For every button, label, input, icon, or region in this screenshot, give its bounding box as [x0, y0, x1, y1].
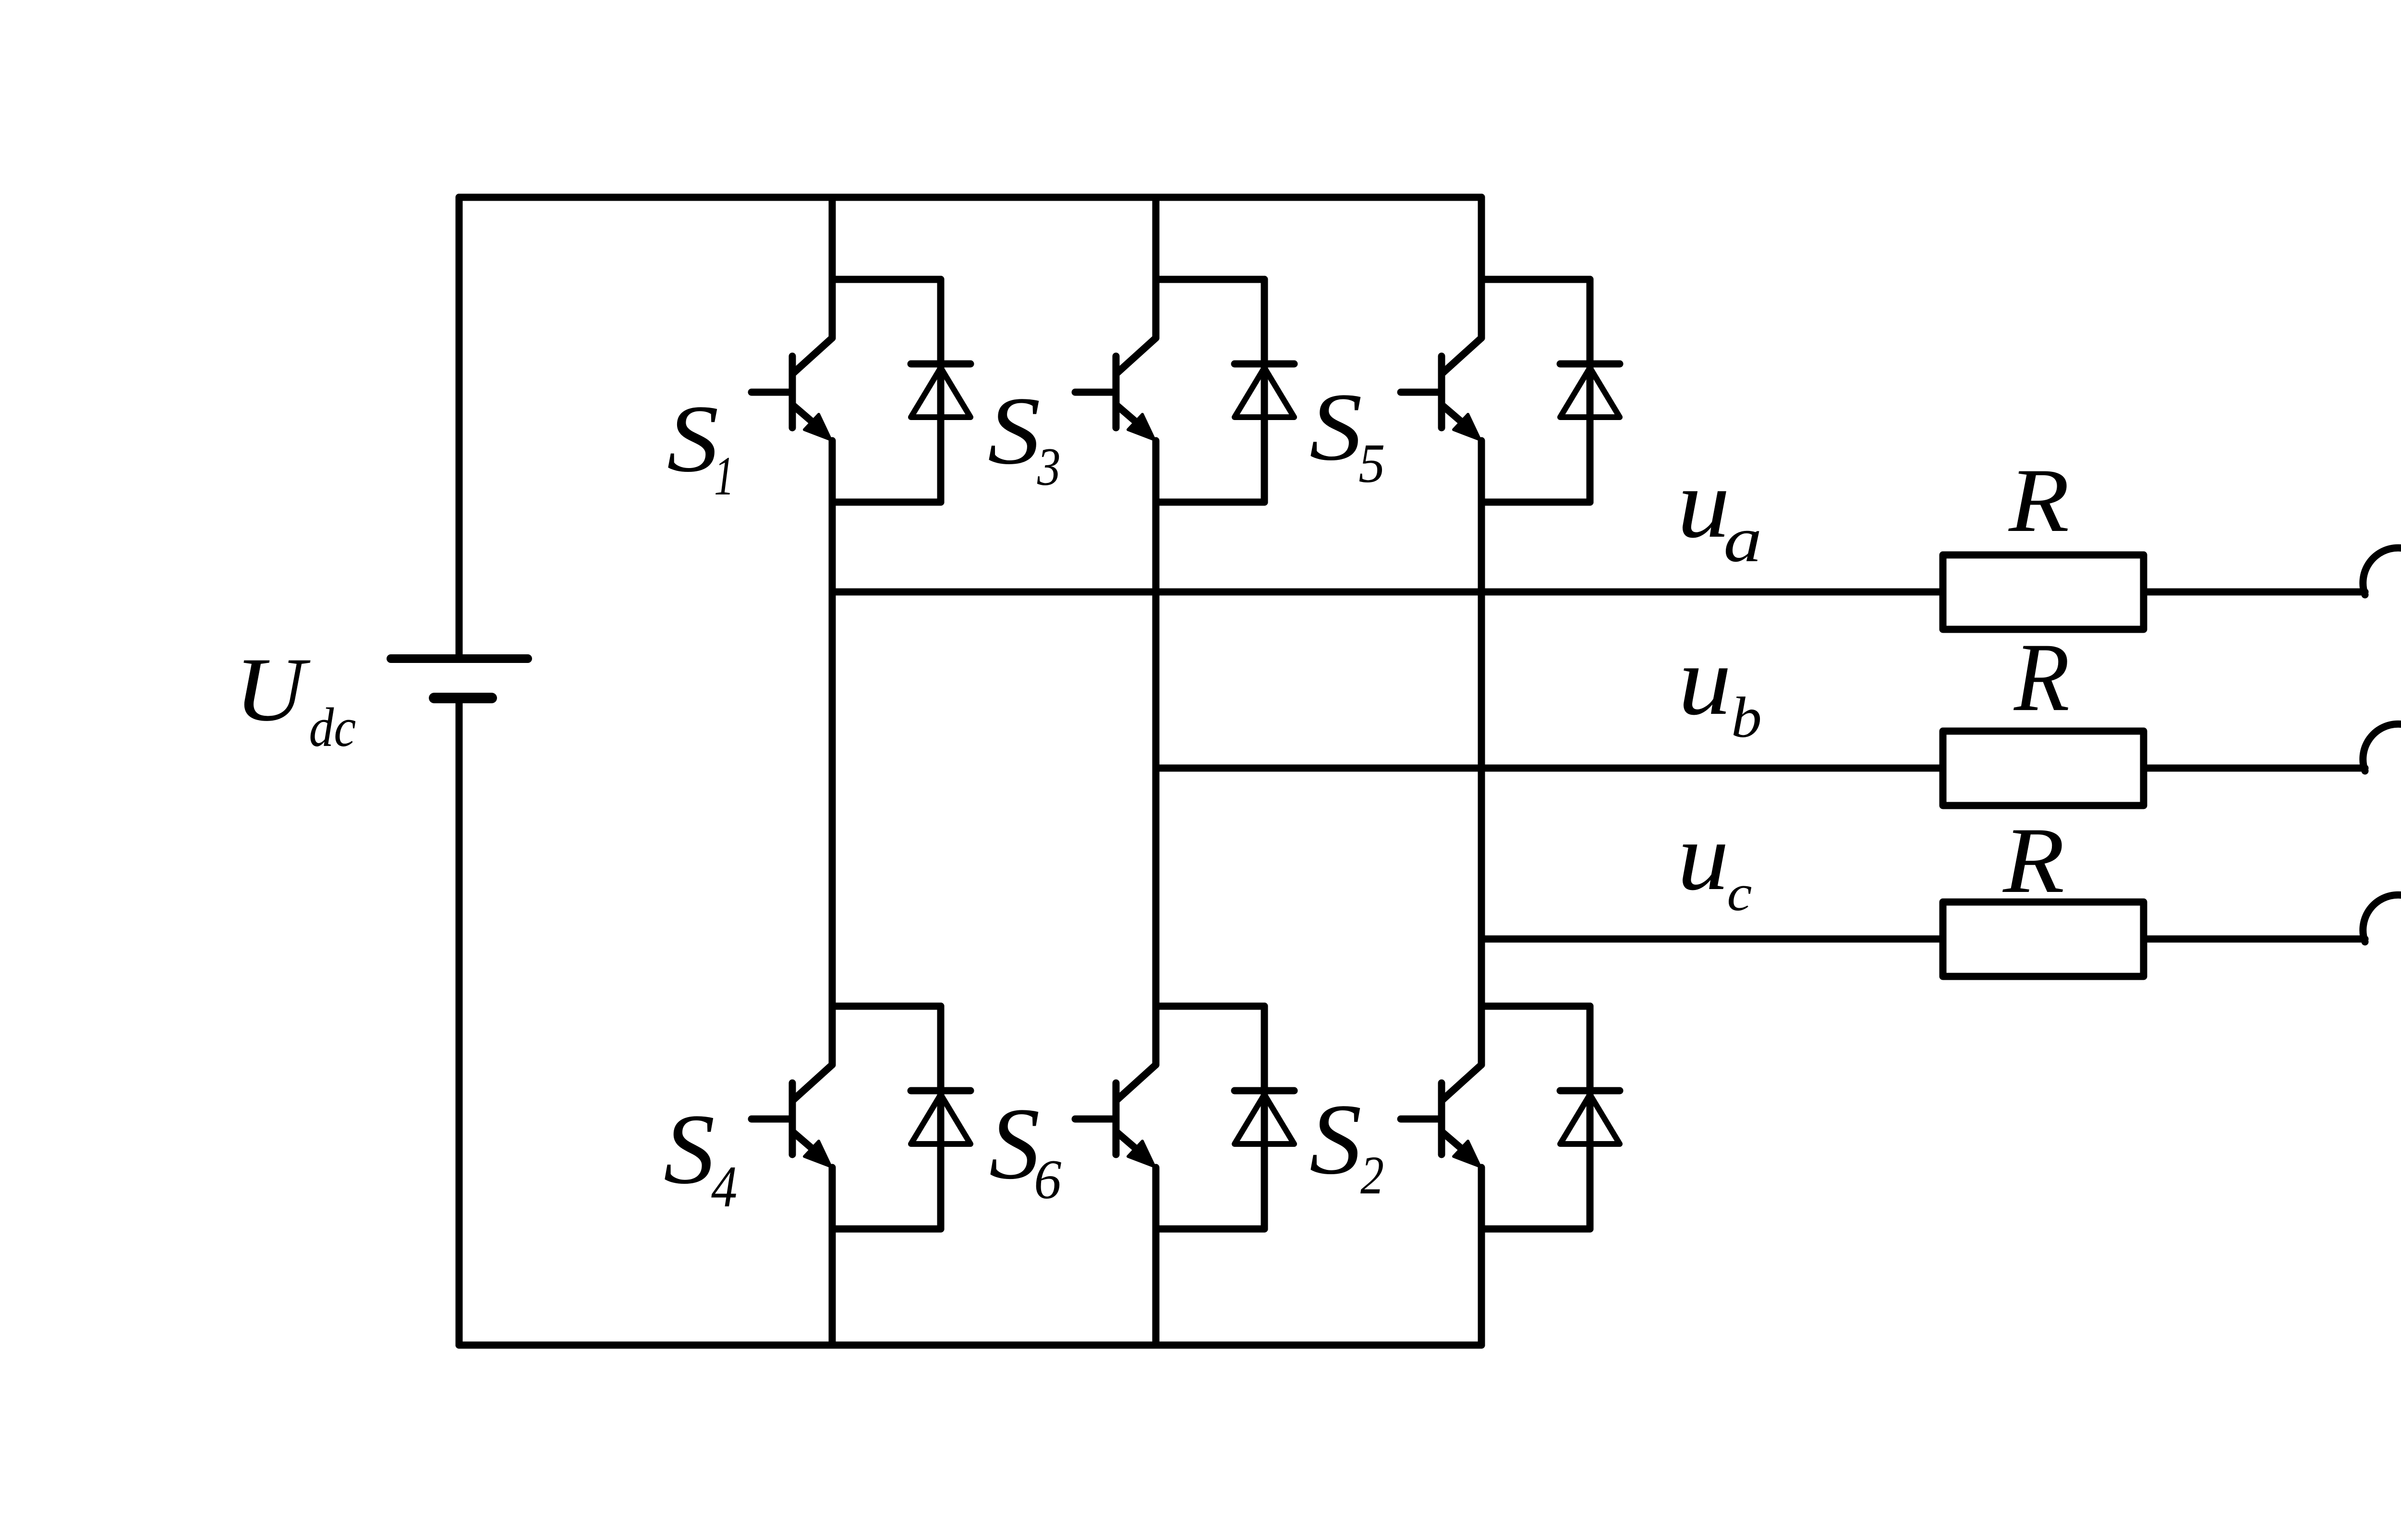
label S3 — [988, 377, 1061, 496]
label Udc — [235, 639, 356, 758]
wire phase a output node ua — [832, 589, 1943, 596]
wire leg 3 upper segment — [1478, 197, 1485, 338]
svg-text:4: 4 — [711, 1155, 737, 1220]
svg-text:1: 1 — [714, 445, 734, 506]
diode antiparallel with S2 — [1560, 1006, 1620, 1229]
svg-text:u: u — [1678, 626, 1732, 735]
svg-text:R: R — [2002, 808, 2064, 912]
svg-text:u: u — [1677, 803, 1729, 911]
label R phase c — [2002, 808, 2064, 912]
label S4 — [664, 1093, 738, 1220]
svg-text:R: R — [2013, 623, 2070, 732]
wire R to L phase b — [2144, 765, 2365, 772]
label uc — [1677, 803, 1752, 922]
wire leg 2 middle segment — [1152, 441, 1160, 1065]
label R phase a — [2008, 450, 2069, 551]
label S1 — [667, 385, 734, 506]
wire leg 3 middle segment — [1478, 441, 1485, 1065]
wire bottom DC bus — [459, 1342, 1481, 1349]
svg-text:S: S — [989, 1087, 1040, 1201]
wire collector stub S4 — [832, 1003, 941, 1010]
transistor S3 — [1075, 338, 1156, 440]
wire leg 2 upper segment — [1152, 197, 1160, 338]
wire leg 1 lower segment — [829, 1167, 836, 1345]
transistor S6 — [1075, 1065, 1156, 1167]
wire R to L phase c — [2144, 936, 2365, 943]
wire phase b output node ub — [1156, 765, 1943, 772]
svg-text:6: 6 — [1034, 1149, 1062, 1211]
resistor R phase a — [1943, 555, 2144, 629]
label S2 — [1310, 1083, 1384, 1205]
wire emitter stub S4 — [832, 1226, 941, 1233]
wire emitter stub S3 — [1156, 499, 1264, 506]
wire R to L phase a — [2144, 589, 2365, 596]
transistor S1 — [752, 338, 832, 440]
wire emitter stub S6 — [1156, 1226, 1264, 1233]
wire emitter stub S2 — [1481, 1226, 1590, 1233]
transistor S2 — [1401, 1065, 1481, 1167]
diode antiparallel with S3 — [1235, 279, 1294, 502]
wire leg 2 lower segment — [1152, 1167, 1160, 1345]
label R phase b — [2013, 623, 2070, 732]
svg-text:b: b — [1731, 685, 1762, 749]
diode antiparallel with S4 — [911, 1006, 970, 1229]
svg-text:S: S — [1310, 1083, 1362, 1195]
wire collector stub S2 — [1481, 1003, 1590, 1010]
wire emitter stub S5 — [1481, 499, 1590, 506]
svg-text:c: c — [1727, 865, 1752, 922]
svg-text:5: 5 — [1358, 433, 1385, 494]
transistor S5 — [1401, 338, 1481, 440]
svg-text:S: S — [988, 377, 1041, 484]
svg-text:u: u — [1677, 449, 1730, 559]
svg-text:S: S — [664, 1093, 715, 1205]
diode antiparallel with S1 — [911, 279, 970, 502]
wire collector stub S3 — [1156, 276, 1264, 283]
svg-text:U: U — [235, 639, 311, 740]
label ub — [1678, 626, 1762, 749]
wire leg 1 middle segment — [829, 441, 836, 1065]
wire collector stub S5 — [1481, 276, 1590, 283]
inductor L phase c — [2363, 895, 2401, 942]
battery Udc — [391, 659, 528, 698]
svg-text:S: S — [667, 385, 719, 492]
resistor R phase b — [1943, 731, 2144, 806]
inductor L phase b — [2363, 724, 2401, 771]
wire top DC bus — [459, 194, 1481, 201]
svg-text:dc: dc — [309, 697, 356, 758]
wire emitter stub S1 — [832, 499, 941, 506]
svg-text:S: S — [1310, 373, 1362, 481]
wire left rail upper (battery +) — [456, 197, 463, 659]
wire leg 3 lower segment — [1478, 1167, 1485, 1345]
wire collector stub S6 — [1156, 1003, 1264, 1010]
diode antiparallel with S6 — [1235, 1006, 1294, 1229]
label ua — [1677, 449, 1762, 576]
transistor S4 — [752, 1065, 832, 1167]
inductor L phase a — [2363, 548, 2401, 595]
wire left rail lower (battery - to bottom bus) — [456, 698, 463, 1345]
wire collector stub S1 — [832, 276, 941, 283]
diode antiparallel with S5 — [1560, 279, 1620, 502]
svg-text:3: 3 — [1037, 437, 1061, 497]
wire phase c output node uc — [1481, 936, 1943, 943]
svg-text:R: R — [2008, 450, 2069, 551]
svg-text:a: a — [1723, 504, 1762, 576]
label S6 — [989, 1087, 1062, 1211]
label S5 — [1310, 373, 1385, 494]
resistor R phase c — [1943, 902, 2144, 976]
wire leg 1 upper segment — [829, 197, 836, 338]
svg-text:2: 2 — [1360, 1145, 1384, 1205]
